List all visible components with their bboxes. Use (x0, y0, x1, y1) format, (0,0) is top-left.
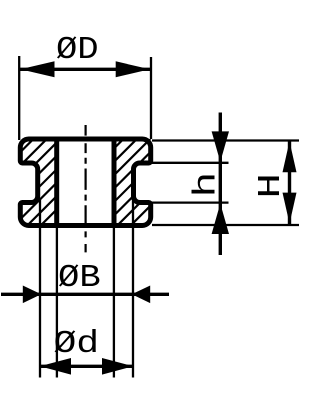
groove extension line right below (132, 199, 134, 378)
dim OD extension line right (150, 57, 152, 139)
hole right edge (112, 137, 117, 228)
hole left edge (54, 137, 59, 228)
h extension line top (152, 162, 229, 164)
dim OD arrow left (20, 61, 54, 77)
dim OD arrow right (116, 61, 150, 77)
dim Od line (40, 365, 133, 368)
svg-text:h: h (189, 172, 224, 198)
dim OB arrow left (outside) (23, 286, 41, 304)
h dim line (219, 113, 222, 256)
hatching left section (0, 80, 200, 235)
H arrow bottom (283, 193, 297, 224)
center line (84, 125, 86, 252)
hole extension line left below (56, 227, 58, 378)
h extension line bottom (152, 201, 229, 203)
body outline (20, 139, 150, 226)
dim OB line (1, 293, 169, 296)
H arrow top (283, 141, 297, 172)
svg-text:ØB: ØB (58, 261, 101, 297)
dim OB arrow right (outside) (132, 286, 150, 304)
H dim line (288, 141, 291, 225)
H extension line bottom (152, 224, 299, 226)
hatching right section (27, 80, 289, 235)
dim OD line (19, 68, 151, 71)
dim Od arrow right (inside) (102, 358, 133, 375)
h arrow bottom (212, 204, 229, 235)
svg-text:Ød: Ød (53, 327, 99, 362)
svg-text:H: H (254, 173, 290, 198)
svg-text:ØD: ØD (56, 33, 99, 69)
H extension line top (152, 139, 299, 141)
groove extension line left below (39, 199, 41, 378)
hole extension line right below (113, 227, 115, 378)
h arrow top (212, 131, 229, 162)
dim Od arrow left (inside) (40, 358, 71, 375)
dim OD extension line left (18, 56, 20, 140)
